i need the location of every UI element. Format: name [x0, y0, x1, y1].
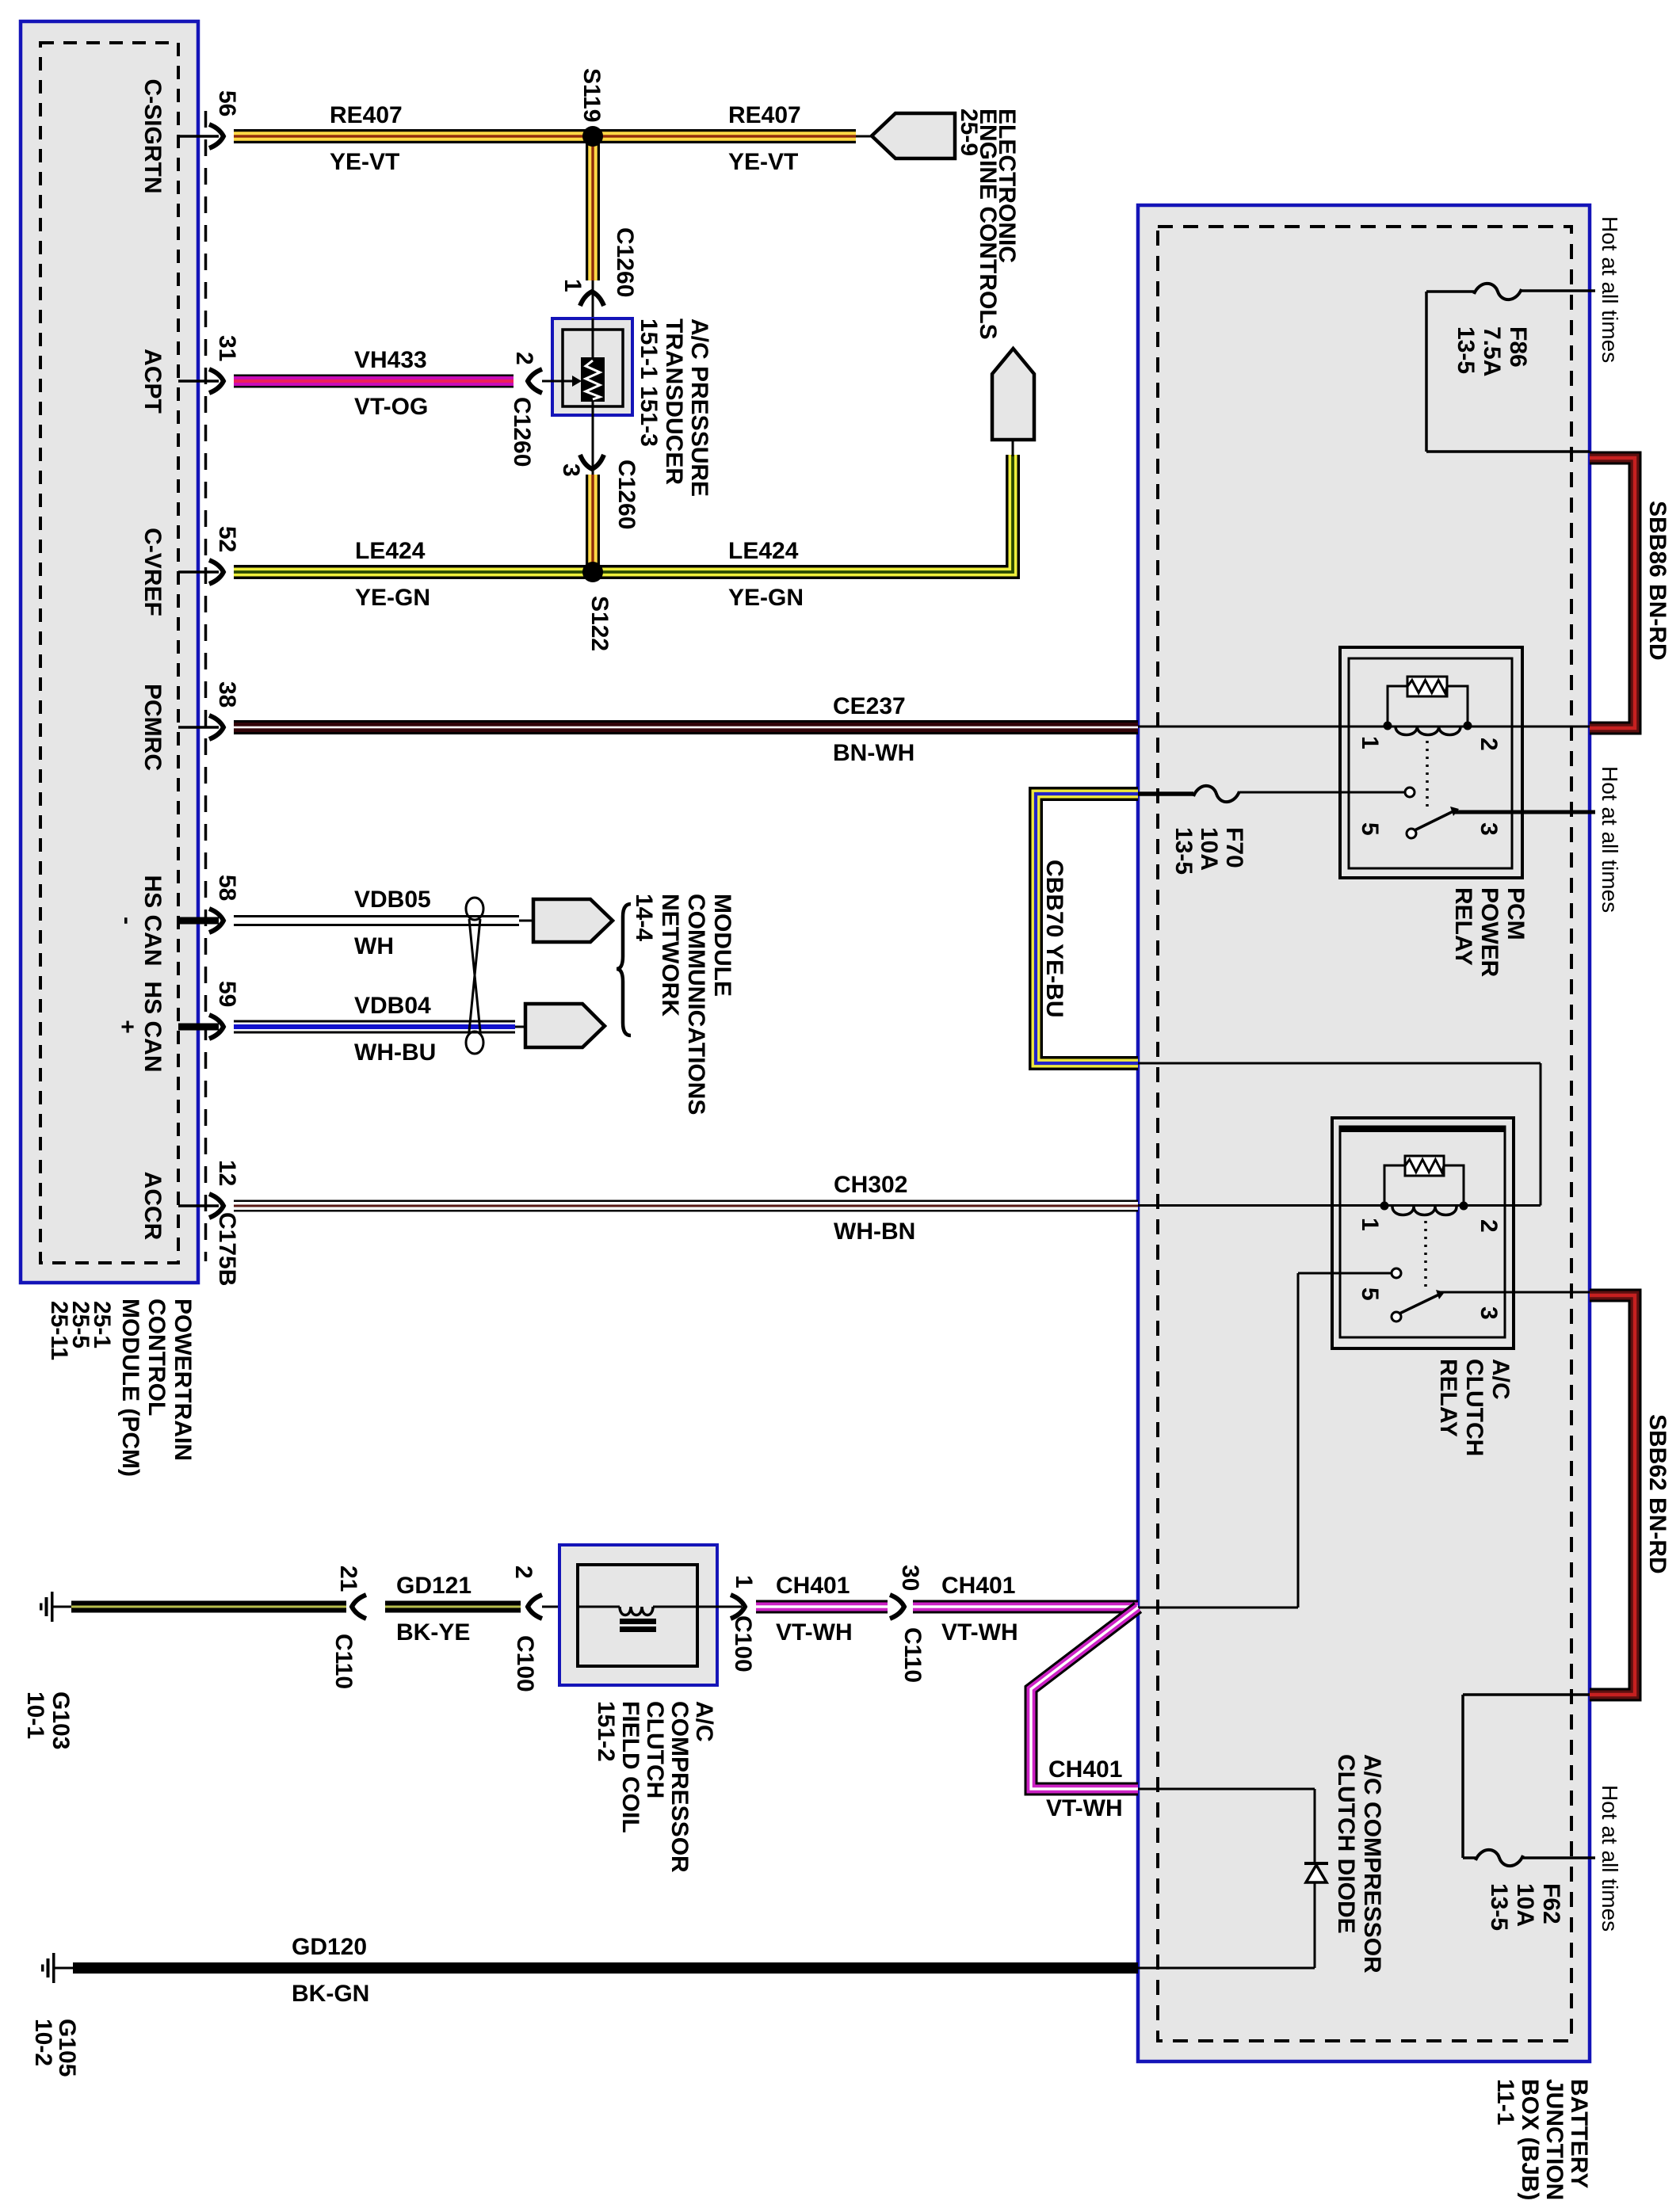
svg-text:CH401: CH401	[941, 1573, 1015, 1599]
svg-text:S122: S122	[586, 596, 613, 651]
svg-text:1: 1	[1357, 736, 1383, 749]
svg-text:C1260: C1260	[612, 227, 638, 297]
svg-text:C110: C110	[330, 1634, 357, 1689]
svg-text:ACCR: ACCR	[139, 1172, 166, 1241]
svg-text:RELAY: RELAY	[1435, 1359, 1461, 1437]
svg-text:5: 5	[1357, 1287, 1383, 1301]
svg-text:VH433: VH433	[354, 347, 427, 373]
svg-text:2: 2	[510, 1566, 536, 1579]
svg-text:YE-GN: YE-GN	[728, 585, 804, 611]
svg-text:F86: F86	[1505, 326, 1531, 368]
svg-text:CONTROL: CONTROL	[143, 1299, 170, 1416]
svg-text:A/C PRESSURE: A/C PRESSURE	[686, 318, 712, 497]
svg-text:CH302: CH302	[834, 1172, 907, 1198]
svg-text:C-VREF: C-VREF	[139, 528, 166, 616]
svg-text:31: 31	[214, 335, 240, 361]
svg-text:3: 3	[1476, 822, 1502, 836]
svg-text:2: 2	[1476, 738, 1502, 751]
svg-text:VDB05: VDB05	[354, 887, 431, 913]
svg-text:TRANSDUCER: TRANSDUCER	[661, 318, 687, 485]
svg-text:POWERTRAIN: POWERTRAIN	[170, 1299, 196, 1461]
svg-text:CH401: CH401	[1048, 1756, 1122, 1783]
svg-text:58: 58	[214, 875, 240, 901]
svg-text:Hot at all times: Hot at all times	[1598, 1785, 1622, 1932]
svg-text:WH-BN: WH-BN	[834, 1219, 915, 1245]
svg-text:C1260: C1260	[509, 397, 535, 467]
svg-text:CLUTCH: CLUTCH	[1461, 1359, 1487, 1456]
svg-text:A/C: A/C	[691, 1701, 717, 1742]
svg-text:10A: 10A	[1512, 1883, 1538, 1927]
svg-text:21: 21	[335, 1566, 361, 1592]
svg-text:A/C: A/C	[1487, 1359, 1514, 1400]
svg-text:PCMRC: PCMRC	[139, 684, 166, 771]
svg-text:56: 56	[214, 90, 240, 116]
svg-text:NETWORK: NETWORK	[657, 894, 683, 1016]
svg-text:MODULE: MODULE	[709, 894, 735, 997]
svg-text:59: 59	[214, 981, 240, 1007]
svg-text:3: 3	[1476, 1306, 1502, 1320]
svg-text:BK-GN: BK-GN	[292, 1981, 369, 2007]
svg-text:WH: WH	[354, 933, 394, 959]
svg-text:RE407: RE407	[728, 102, 801, 128]
svg-text:13-5: 13-5	[1453, 326, 1479, 374]
svg-text:WH-BU: WH-BU	[354, 1039, 436, 1066]
svg-text:52: 52	[214, 526, 240, 552]
svg-text:YE-VT: YE-VT	[330, 149, 399, 175]
svg-text:SBB62 BN-RD: SBB62 BN-RD	[1644, 1414, 1670, 1574]
svg-text:G105: G105	[54, 2019, 80, 2077]
svg-text:7.5A: 7.5A	[1479, 326, 1505, 376]
svg-text:1: 1	[731, 1575, 757, 1588]
svg-text:GD120: GD120	[292, 1934, 367, 1960]
svg-text:CE237: CE237	[833, 693, 906, 719]
svg-text:GD121: GD121	[396, 1573, 472, 1599]
svg-text:MODULE (PCM): MODULE (PCM)	[117, 1299, 143, 1477]
svg-text:13-5: 13-5	[1170, 827, 1197, 875]
svg-text:BATTERY: BATTERY	[1566, 2079, 1592, 2188]
svg-text:CLUTCH DIODE: CLUTCH DIODE	[1333, 1754, 1359, 1934]
svg-text:C100: C100	[512, 1635, 538, 1692]
svg-text:BK-YE: BK-YE	[396, 1619, 470, 1646]
svg-text:25-11: 25-11	[46, 1301, 72, 1360]
svg-text:YE-VT: YE-VT	[728, 149, 798, 175]
svg-text:BN-WH: BN-WH	[833, 740, 914, 766]
svg-text:2: 2	[1476, 1219, 1502, 1233]
svg-text:JUNCTION: JUNCTION	[1541, 2079, 1567, 2200]
svg-text:HS CAN: HS CAN	[139, 875, 166, 966]
svg-text:ACPT: ACPT	[139, 349, 166, 414]
svg-text:+: +	[114, 1020, 140, 1034]
svg-text:F70: F70	[1221, 827, 1247, 868]
svg-text:RE407: RE407	[330, 102, 403, 128]
svg-text:38: 38	[214, 681, 240, 707]
svg-text:1: 1	[559, 279, 586, 292]
svg-text:LE424: LE424	[728, 538, 799, 564]
svg-text:COMPRESSOR: COMPRESSOR	[666, 1701, 693, 1873]
svg-text:LE424: LE424	[355, 538, 426, 564]
svg-text:RELAY: RELAY	[1450, 887, 1476, 966]
svg-text:VT-WH: VT-WH	[776, 1619, 853, 1646]
svg-text:151-2: 151-2	[593, 1701, 619, 1762]
svg-text:F62: F62	[1538, 1883, 1564, 1924]
svg-text:10A: 10A	[1196, 827, 1222, 871]
svg-text:POWER: POWER	[1476, 887, 1502, 978]
svg-text:BOX (BJB): BOX (BJB)	[1517, 2079, 1543, 2200]
svg-text:3: 3	[558, 463, 584, 477]
svg-text:2: 2	[511, 352, 537, 365]
svg-text:1: 1	[1357, 1218, 1383, 1231]
svg-text:C100: C100	[730, 1615, 756, 1672]
svg-text:VDB04: VDB04	[354, 993, 431, 1019]
svg-text:Hot at all times: Hot at all times	[1598, 216, 1622, 363]
svg-text:12: 12	[214, 1160, 240, 1186]
svg-text:151-1 151-3: 151-1 151-3	[636, 318, 662, 447]
svg-text:CH401: CH401	[776, 1573, 850, 1599]
svg-text:C110: C110	[899, 1627, 926, 1683]
svg-text:PCM: PCM	[1502, 887, 1529, 940]
svg-text:14-4: 14-4	[631, 894, 657, 941]
svg-text:YE-GN: YE-GN	[355, 585, 430, 611]
svg-text:VT-WH: VT-WH	[1046, 1795, 1123, 1821]
svg-text:5: 5	[1357, 822, 1383, 836]
svg-text:C1260: C1260	[613, 460, 640, 529]
svg-text:Hot at all times: Hot at all times	[1598, 766, 1622, 913]
svg-text:CBB70 YE-BU: CBB70 YE-BU	[1041, 860, 1067, 1018]
svg-text:G103: G103	[48, 1691, 74, 1749]
svg-text:-: -	[114, 917, 140, 925]
svg-text:HS CAN: HS CAN	[139, 981, 166, 1072]
svg-text:SBB86 BN-RD: SBB86 BN-RD	[1644, 501, 1670, 661]
svg-text:CLUTCH: CLUTCH	[642, 1701, 668, 1798]
svg-text:C175B: C175B	[214, 1212, 240, 1286]
svg-text:C-SIGRTN: C-SIGRTN	[139, 79, 166, 194]
svg-text:A/C COMPRESSOR: A/C COMPRESSOR	[1359, 1754, 1385, 1974]
svg-text:10-2: 10-2	[30, 2019, 56, 2066]
svg-text:10-1: 10-1	[22, 1691, 48, 1739]
svg-text:13-5: 13-5	[1486, 1883, 1512, 1931]
svg-text:VT-OG: VT-OG	[354, 394, 428, 420]
svg-text:FIELD COIL: FIELD COIL	[617, 1701, 643, 1833]
svg-text:30: 30	[897, 1565, 923, 1591]
svg-text:25-9: 25-9	[956, 109, 982, 156]
svg-text:COMMUNICATIONS: COMMUNICATIONS	[683, 894, 709, 1115]
svg-text:11-1: 11-1	[1492, 2079, 1518, 2125]
svg-text:S119: S119	[578, 68, 605, 122]
svg-text:VT-WH: VT-WH	[941, 1619, 1018, 1646]
